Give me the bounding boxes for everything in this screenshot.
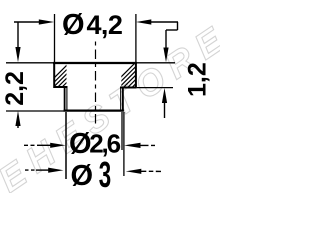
svg-text:1,2: 1,2 (184, 62, 212, 97)
dim 2,2 lower arrowhead (up) (15, 111, 20, 126)
extension line flange right (up) (135, 14, 137, 62)
hole right edge below flange (120, 88, 122, 112)
dim 2,2 lower tail (17, 123, 19, 128)
extension line hole left (down) (65, 112, 67, 179)
extension line hole right (down) (121, 112, 123, 150)
extension line bushing bottom to left (6, 110, 64, 112)
dim Ø2,6 left tail (24, 144, 37, 146)
barrel left outer edge (64, 87, 66, 111)
dim Ø3 right tail (dashed) (141, 170, 161, 172)
svg-text:Ø: Ø (69, 128, 92, 160)
svg-text:4,2: 4,2 (87, 10, 123, 40)
svg-text:2,6: 2,6 (89, 128, 120, 158)
svg-text:2,2: 2,2 (1, 71, 29, 106)
dim 1,2 jog vertical (177, 22, 179, 30)
extension line flange top to right (137, 62, 175, 64)
dim 2,2 upper tail (17, 22, 19, 50)
extension line flange bottom to right (137, 87, 173, 89)
dim Ø3 left tail (25, 169, 36, 171)
svg-text:Ø: Ø (62, 9, 85, 41)
hatch right flange ring (106, 60, 168, 92)
flange bottom left segment (54, 86, 68, 88)
dim Ø3 right arrowhead (126, 169, 142, 174)
centerline (vertical dashed axis) (95, 42, 97, 127)
dim 1,2 jog horizontal (166, 29, 178, 31)
flange left edge (53, 62, 55, 88)
barrel bottom (64, 109, 124, 111)
dim 1,2 upper arrowhead (down) (163, 48, 168, 63)
hatch left flange ring (40, 60, 98, 92)
flange bottom right segment (120, 87, 137, 89)
dim Ø2,6 left arrowhead (50, 143, 65, 148)
extension line flange left (up) (54, 14, 56, 62)
dim 1,2 lower tail (164, 100, 166, 118)
extension line flange top to left (6, 62, 54, 64)
bushing outline: flange top (53, 62, 137, 64)
dim Ø2,6 right tail (dashed) (140, 144, 155, 146)
watermark HESTORE (0, 15, 237, 201)
svg-text:3: 3 (99, 156, 111, 193)
dim Ø4,2 left arrowhead (39, 19, 54, 24)
dim Ø4,2 right arrowhead (136, 19, 151, 24)
dim Ø4,2 line left segment (14, 21, 44, 23)
hole left edge below flange (66, 87, 68, 111)
svg-text:Ø: Ø (71, 160, 94, 192)
dim Ø2,6 right arrowhead (124, 143, 141, 148)
flange right edge (135, 62, 137, 88)
barrel right outer edge (122, 88, 124, 112)
extension line barrel right (down) (123, 112, 125, 176)
dim 1,2 lower arrowhead (up) (162, 88, 167, 103)
dim Ø3 left arrowhead (48, 168, 63, 173)
dim 2,2 upper arrowhead (down) (15, 47, 20, 62)
dim Ø4,2 line right segment (147, 21, 178, 23)
dim 1,2 upper tail (165, 30, 167, 50)
